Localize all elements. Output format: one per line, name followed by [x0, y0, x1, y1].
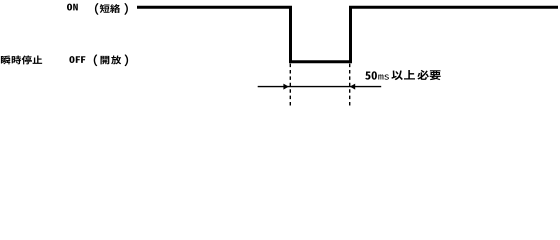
dimension arrowhead pointing left at rising edge	[350, 84, 355, 90]
dashed extension line at rising edge	[349, 64, 351, 106]
dashed extension line at falling edge	[289, 64, 291, 106]
waveform signal trace: high, falling edge, low pulse, rising edge, high	[137, 7, 558, 62]
dimension line	[258, 86, 382, 88]
label shunji-teishi (momentary stop)	[1, 56, 42, 65]
label ON (tanraku/short-circuit)	[67, 3, 128, 15]
label 50ms or more required	[365, 70, 441, 80]
dimension arrowhead pointing right at falling edge	[283, 84, 288, 90]
label OFF (kaihou/open)	[69, 54, 128, 66]
